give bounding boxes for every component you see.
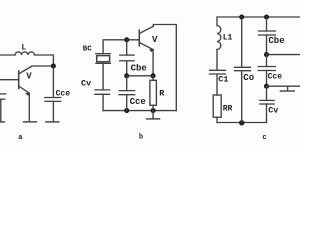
wire b middle to emitter [127, 75, 153, 77]
svg-text:Cce: Cce [56, 89, 71, 98]
node b bottom left junction [124, 108, 129, 113]
wire c top horizontal [217, 17, 300, 26]
ground (circuit c) [280, 86, 294, 91]
svg-text:L1: L1 [223, 33, 233, 42]
svg-text:C1: C1 [218, 75, 228, 85]
ground (left edge, clipped, circuit a) [0, 121, 5, 123]
capacitor Cbe (circuit b) [120, 40, 134, 76]
svg-text:Cbe: Cbe [131, 63, 147, 73]
node c bottom junction [239, 120, 244, 125]
svg-text:Cv: Cv [268, 105, 278, 115]
wire c bottom horizontal [217, 122, 266, 124]
crystal BC [96, 54, 111, 90]
node b top junction [124, 37, 129, 42]
svg-text:V: V [152, 35, 158, 45]
capacitor Cv (circuit b) [95, 90, 110, 111]
svg-text:Cbe: Cbe [268, 36, 284, 46]
wire c right to edge (upper) [267, 54, 301, 56]
svg-text:Cce: Cce [130, 97, 146, 107]
resistor RR (circuit c) [213, 95, 221, 123]
transistor V (circuit a) [0, 66, 32, 121]
node b middle junction [124, 73, 129, 78]
svg-text:Cv: Cv [81, 79, 91, 89]
capacitor at left edge (clipped, circuit a) [0, 94, 6, 121]
svg-text:b: b [139, 134, 143, 142]
capacitor Cce (circuit b) [119, 76, 135, 111]
svg-text:Cce: Cce [268, 73, 283, 82]
svg-text:Co: Co [243, 73, 254, 83]
ground (circuit b) [147, 111, 160, 119]
node c right junction 2 [264, 84, 269, 89]
wire b bottom horizontal [103, 110, 176, 112]
wire b collector loop [153, 25, 176, 111]
ground (Cce, circuit a) [46, 121, 59, 123]
wire a top from left edge [0, 54, 15, 56]
capacitor Cv (circuit c) [260, 86, 274, 122]
node b emitter junction [151, 73, 156, 78]
inductor L1 (circuit c) [217, 26, 221, 50]
node c top junction 2 [264, 14, 269, 19]
svg-text:c: c [262, 134, 266, 142]
capacitor Cce (circuit c) [258, 55, 275, 87]
node a collector junction [51, 63, 56, 68]
capacitor C1 (circuit c) [210, 70, 226, 95]
svg-text:L: L [21, 43, 26, 52]
capacitor Cce (circuit a) [45, 98, 61, 122]
wire a vertical to Cce [52, 66, 54, 97]
node b bottom right junction [151, 108, 156, 113]
node c right junction 1 [264, 52, 269, 57]
wire a collector horizontal [32, 65, 54, 67]
ground (emitter, circuit a) [24, 121, 37, 123]
resistor R (circuit b) [150, 76, 157, 111]
svg-text:R: R [159, 88, 165, 98]
transistor V (circuit b) [139, 26, 153, 76]
node c top junction 1 [239, 14, 244, 19]
wire c right to edge (lower) [267, 85, 301, 87]
wire a top right [35, 55, 54, 66]
svg-text:RR: RR [223, 105, 233, 114]
wire c left vertical [216, 50, 218, 71]
svg-text:V: V [26, 71, 32, 81]
svg-text:BC: BC [83, 45, 93, 53]
wire b top horizontal [103, 40, 139, 54]
inductor L [15, 52, 35, 55]
capacitor Cbe (circuit c) [259, 17, 276, 55]
capacitor Co (circuit c) [235, 17, 251, 123]
